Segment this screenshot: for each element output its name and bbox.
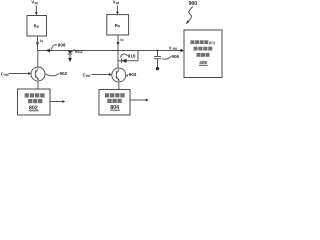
svg-text:R: R xyxy=(115,23,118,28)
svg-text:(IC): (IC) xyxy=(209,41,215,45)
svg-text:408: 408 xyxy=(199,60,207,65)
svg-text:V: V xyxy=(31,0,34,5)
svg-text:902: 902 xyxy=(60,71,68,76)
svg-text:V: V xyxy=(113,0,116,5)
svg-text:V: V xyxy=(169,45,172,50)
svg-text:I: I xyxy=(40,39,41,43)
svg-text:C: C xyxy=(83,72,86,77)
svg-text:912: 912 xyxy=(75,49,83,54)
svg-text:I: I xyxy=(120,38,121,42)
svg-text:910: 910 xyxy=(128,54,136,59)
svg-text:906: 906 xyxy=(171,54,179,59)
svg-text:C: C xyxy=(1,71,4,76)
svg-text:900: 900 xyxy=(189,1,198,7)
svg-text:904: 904 xyxy=(129,72,137,77)
svg-text:R: R xyxy=(34,23,37,28)
svg-text:908: 908 xyxy=(58,43,66,48)
